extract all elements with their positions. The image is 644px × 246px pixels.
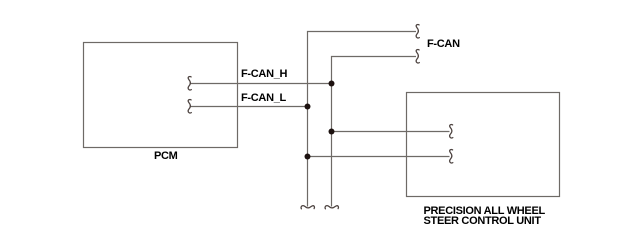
junction dot upper steer wire / right bus [329, 129, 335, 135]
wire-break squiggle at F-CAN lower end [416, 49, 419, 62]
wire right vertical bus [332, 57, 417, 207]
wire-break squiggle at steer unit upper wire end [450, 124, 453, 137]
wire F-CAN_H [190, 83, 332, 85]
wire left vertical bus [308, 32, 417, 207]
wire-break squiggle at left bus bottom end [301, 206, 314, 209]
svg-text:STEER CONTROL UNIT: STEER CONTROL UNIT [424, 215, 542, 227]
wire F-CAN_L [190, 106, 308, 108]
junction dot F-CAN_H / right bus [329, 81, 335, 87]
PCM box [84, 43, 238, 148]
wire to steer unit upper [332, 131, 450, 133]
svg-text:F-CAN_L: F-CAN_L [241, 92, 287, 104]
wire to steer unit lower [308, 156, 450, 158]
wire-break squiggle at F-CAN upper end [416, 24, 419, 37]
svg-text:F-CAN: F-CAN [427, 38, 460, 50]
wire-break squiggle at steer unit lower wire end [450, 149, 453, 162]
wire-break squiggle at F-CAN_H PCM end [188, 76, 191, 89]
svg-text:PCM: PCM [154, 150, 178, 162]
junction dot F-CAN_L / left bus [305, 104, 311, 110]
junction dot lower steer wire / left bus [305, 154, 311, 160]
wire-break squiggle at F-CAN_L PCM end [188, 99, 191, 112]
box PRECISION ALL WHEEL STEER CONTROL UNIT [407, 93, 560, 197]
wire-break squiggle at right bus bottom end [325, 206, 338, 209]
svg-text:F-CAN_H: F-CAN_H [241, 68, 288, 80]
